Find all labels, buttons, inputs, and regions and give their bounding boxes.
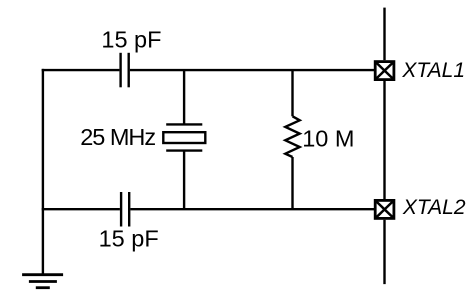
wire: top net, C1 right plate to XTAL1 pin box bbox=[130, 69, 375, 71]
svg-text:XTAL1: XTAL1 bbox=[401, 59, 465, 82]
svg-text:25 MHz: 25 MHz bbox=[80, 124, 155, 150]
capacitor C2 (15 pF, bottom) bbox=[121, 192, 129, 227]
wire: top net, corner to C1 left plate bbox=[42, 69, 120, 71]
capacitor C1 (15 pF, top) bbox=[121, 53, 129, 88]
pin XTAL2 (box with X) bbox=[375, 200, 394, 218]
svg-text:15 pF: 15 pF bbox=[101, 26, 161, 52]
svg-text:10 M: 10 M bbox=[302, 126, 354, 152]
wire: crystal top lead (node between C1 and Y1) bbox=[183, 70, 185, 124]
wire: crystal bottom lead bbox=[183, 151, 185, 210]
svg-text:XTAL2: XTAL2 bbox=[402, 196, 466, 219]
crystal Y1 (25 MHz) bbox=[163, 124, 205, 150]
wire: resistor bottom lead bbox=[291, 157, 293, 209]
svg-text:15 pF: 15 pF bbox=[99, 226, 159, 252]
wire: resistor top lead bbox=[291, 70, 293, 116]
wire: bottom net, junction at left rail to C2 left plate bbox=[42, 208, 120, 210]
ground bbox=[22, 275, 63, 288]
wire: right rail below XTAL2 pin bbox=[383, 220, 385, 284]
pin XTAL1 (box with X) bbox=[375, 62, 394, 80]
wire: right rail above XTAL1 pin bbox=[383, 8, 385, 61]
wire: bottom net, C2 right plate to XTAL2 pin box bbox=[130, 208, 374, 210]
resistor R1 (10 M) zigzag bbox=[285, 116, 299, 157]
wire: right rail between XTAL1 and XTAL2 pins bbox=[383, 81, 385, 199]
wire: left vertical (ground net, left rail) bbox=[42, 69, 44, 275]
